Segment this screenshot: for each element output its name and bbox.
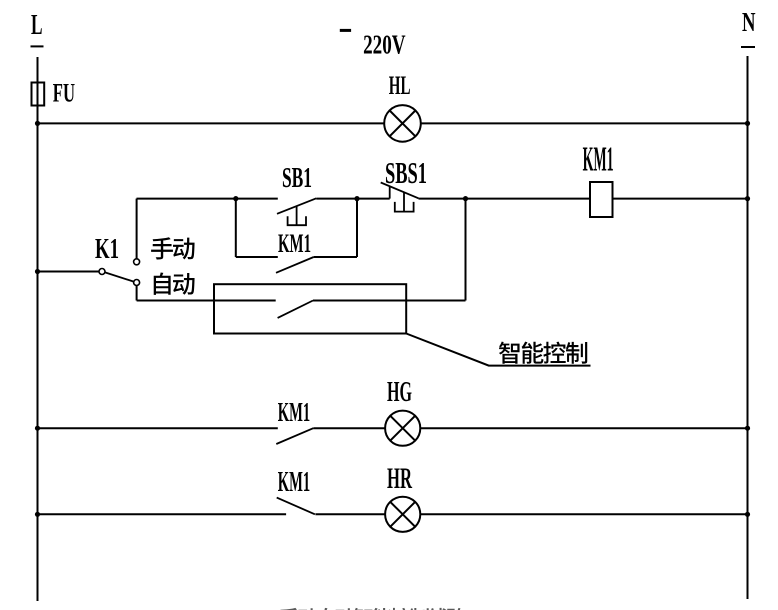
svg-text:L: L bbox=[31, 9, 43, 41]
svg-text:SB1: SB1 bbox=[282, 162, 312, 194]
svg-text:HR: HR bbox=[387, 462, 412, 495]
svg-text:FU: FU bbox=[53, 78, 75, 108]
svg-text:HL: HL bbox=[389, 70, 411, 100]
svg-text:KM1: KM1 bbox=[278, 466, 310, 498]
svg-text:K1: K1 bbox=[95, 233, 119, 265]
svg-text:KM1: KM1 bbox=[278, 397, 310, 427]
svg-text:HG: HG bbox=[387, 376, 412, 408]
svg-text:N: N bbox=[742, 7, 756, 37]
svg-text:SBS1: SBS1 bbox=[385, 155, 427, 190]
svg-text:KM1: KM1 bbox=[583, 140, 614, 179]
svg-text:220V: 220V bbox=[363, 29, 406, 60]
svg-text:KM1: KM1 bbox=[278, 229, 311, 258]
